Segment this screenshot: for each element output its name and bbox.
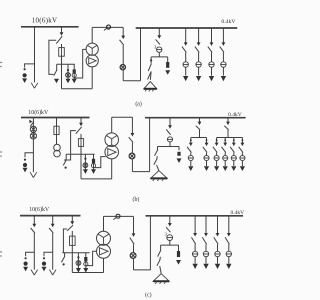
arrester ground arrow (a) [22, 78, 27, 83]
metering tap to transformer wire (c) [86, 251, 97, 265]
feeder group 2 stem with breaker (b) [217, 118, 243, 138]
ground leg switch 2 (c) [157, 259, 160, 265]
0.4kV bus (a) [136, 27, 238, 29]
grounding T rail (c) [161, 244, 179, 246]
bottom link wire (a) [62, 88, 93, 90]
metering drop wire mid (a) [122, 45, 124, 64]
PT tap 2 arrow (a) [66, 79, 71, 84]
PT tap 1 arrow (a) [54, 79, 59, 84]
metering drop switch (b) [129, 137, 133, 142]
svg-text:(c): (c) [145, 291, 152, 298]
grounding T rail (b) [158, 146, 180, 148]
fuse (c) [70, 236, 76, 245]
PT tap 3 winding (c) [84, 262, 88, 266]
incoming line 2 with switch and arrester (c) [42, 216, 57, 275]
10(6)kV bus (a) [21, 26, 79, 28]
grounding branch wire 2 (c) [169, 241, 171, 246]
svg-text:10(6)kV: 10(6)kV [29, 206, 50, 213]
grounding branch meter (c) [167, 235, 173, 241]
svg-text:0.4kV: 0.4kV [228, 112, 242, 118]
metering meter (a) [120, 65, 125, 70]
metering bottom wire (b) [132, 171, 149, 173]
arrester leg arrow (c) [176, 260, 181, 265]
incoming open arrow (b) [30, 172, 33, 177]
transformer branch wire (c) [71, 216, 73, 223]
svg-text:(a): (a) [135, 101, 142, 108]
margin artifact (a) [0, 62, 2, 64]
arrester gap dot (b) [24, 159, 26, 161]
ground leg switch 2 (a) [148, 72, 151, 79]
switch bracket wire (a) [49, 40, 56, 74]
jumper breaker symbol (c) [116, 214, 120, 218]
arrester leg arrow (a) [165, 70, 170, 75]
PT tap 1 dot (c) [63, 263, 65, 265]
0.4kV bus (b) [145, 117, 246, 119]
0.4kV feeder 3 (a): wire, breaker, meter, load arrow [208, 28, 214, 81]
transformer lv riser (c) [103, 258, 105, 272]
grounding branch wire (c) [169, 216, 171, 225]
ground leg wire 2 (c) [159, 257, 162, 260]
fuse (b) [78, 139, 83, 147]
metering drop wire lower (c) [133, 258, 135, 270]
incoming line wire (a) [34, 27, 36, 83]
metering bottom wire (a) [123, 80, 140, 82]
metering drop wire upper (a) [122, 27, 124, 37]
disconnect switch (a) [56, 36, 62, 44]
wire fuse to rail (c) [71, 245, 73, 272]
transformer hv riser (a) [91, 27, 93, 43]
incoming line 1 with switch and arrester (c) [23, 216, 37, 275]
PT tap 3 wire (a) [73, 64, 75, 80]
PT tap 2 dot (b) [84, 158, 86, 160]
10(6)kV bus (b) [21, 117, 90, 119]
ground leg wire 3 (c) [160, 266, 162, 273]
metering drop wire upper (c) [133, 216, 135, 235]
PT tap 2 wire (c) [77, 253, 79, 269]
bus end riser (c) [149, 216, 151, 270]
arrester leg element (c) [177, 251, 180, 257]
ground leg wire 3 (b) [157, 165, 159, 171]
feeder group2 branch 2 (b) [222, 138, 228, 172]
bus end riser (b) [149, 118, 151, 172]
ground leg dot (a) [150, 59, 152, 61]
grounding branch wire (b) [169, 118, 171, 127]
wire switch to fuse (b) [80, 134, 82, 139]
grounding triangle (a) [144, 82, 157, 89]
metering drop wire lower (b) [131, 159, 133, 172]
bus end riser (a) [140, 28, 142, 81]
svg-text:10(6)kV: 10(6)kV [32, 16, 57, 24]
PT tap 1 switch (b) [63, 159, 66, 165]
PT tap 3 winding (b) [91, 164, 95, 168]
transformer T (c) [97, 231, 111, 245]
PT tap 2 dot (a) [67, 69, 69, 71]
10(6)kV bus (c) [20, 215, 81, 217]
0.4kV feeder 2 (a): wire, breaker, meter, load arrow [195, 28, 201, 81]
grounding branch switch (c) [166, 227, 170, 232]
grounding branch wire 2 (b) [169, 142, 171, 147]
PT branch wire 2 (b) [56, 135, 58, 145]
PT tap 3 element (c) [84, 257, 87, 261]
ground leg switch 1 (b) [155, 150, 158, 156]
PT branch wire (b) [56, 118, 58, 127]
ground leg wire 2 (b) [156, 156, 159, 159]
PT tap 2 wire (b) [84, 154, 86, 170]
grounding branch wire 2 (a) [158, 52, 160, 57]
feeder group1 branch 2 (b) [203, 138, 209, 172]
transformer lv riser (a) [91, 67, 93, 89]
bottom link wire (c) [72, 272, 103, 274]
PT tap 3 wire (b) [93, 154, 95, 170]
metering rail (b) [66, 153, 95, 155]
metering bottom wire (c) [134, 269, 151, 271]
voltage transformer circle 2 (b) [54, 150, 61, 157]
transformer T (b) [105, 133, 119, 147]
arrester leg element (b) [177, 152, 180, 156]
metering drop switch (c) [130, 238, 134, 245]
switch bracket wire (c) [63, 229, 67, 253]
PT tap 1 dot (b) [65, 167, 67, 169]
PT tap 1 wire (c) [64, 253, 66, 257]
feeder group2 branch 3 (b) [230, 138, 236, 172]
jumper breaker symbol (a) [107, 25, 111, 29]
PT tap 1 switch (c) [61, 256, 64, 262]
arrester leg wire (c) [178, 245, 180, 251]
arrester body (a) [23, 73, 27, 77]
PT tap 1 wire (a) [56, 64, 58, 70]
arrester leg element (a) [166, 62, 169, 68]
arrester branch wire (b) [25, 153, 33, 157]
metering rail (a) [57, 63, 75, 65]
arrester leg wire (b) [178, 147, 180, 151]
0.4kV feeder 4 (a): wire, breaker, meter, load arrow [220, 28, 226, 81]
grounding triangle (b) [151, 171, 168, 179]
metering tap to transformer wire (a) [74, 49, 86, 78]
incoming CT 1 (b) [30, 126, 36, 132]
PT tap 1 wire (b) [65, 154, 67, 159]
svg-text:0.4kV: 0.4kV [231, 210, 245, 216]
transformer branch switch (b) [76, 127, 82, 134]
wire switch to fuse (a) [61, 44, 63, 48]
grounding branch switch (b) [166, 129, 170, 134]
bottom link wire (b) [81, 178, 112, 180]
0.4kV feeder 3 (c): wire, breaker, meter, load arrow [214, 216, 220, 269]
0.4kV bus (c) [146, 215, 244, 217]
PT tap 3 wire (c) [85, 253, 87, 269]
PT tap 2 winding (b) [83, 163, 88, 168]
grounding T rail (a) [151, 56, 168, 58]
PT tap 2 dot (c) [77, 256, 79, 258]
svg-text:0.4kV: 0.4kV [221, 19, 236, 25]
wire fuse to metering rail (a) [61, 56, 63, 88]
transformer lv riser (b) [111, 159, 113, 179]
arrester body (b) [23, 163, 27, 167]
fuse (a) [59, 48, 65, 57]
arrester gap dot (a) [24, 68, 26, 70]
PT tap 3 arrow (c) [83, 268, 88, 273]
incoming line open arrow (a) [31, 83, 34, 88]
arrester ground arrow (b) [23, 168, 28, 173]
metering rail (c) [62, 252, 89, 254]
transformer T (a) [86, 43, 98, 55]
wire switch to fuse (c) [71, 231, 73, 236]
0.4kV feeder 2 (c): wire, breaker, meter, load arrow [202, 216, 208, 269]
voltage transformer circle 1 (b) [54, 144, 61, 151]
wire fuse to rail (b) [80, 146, 82, 179]
PT tap 2 winding (a) [66, 73, 71, 78]
lv jumper (b) [112, 116, 133, 118]
arrester leg arrow (b) [177, 158, 182, 163]
ground leg wire (a) [150, 57, 152, 64]
metering meter (c) [130, 253, 136, 259]
0.4kV feeder 1 (c): wire, breaker, meter, load arrow [191, 216, 197, 269]
lv jumper (c) [104, 215, 134, 217]
PT tap 2 wire (a) [67, 64, 69, 80]
metering drop switch (a) [120, 40, 124, 45]
transformer hv riser (c) [103, 216, 105, 231]
ground leg wire (b) [157, 147, 159, 150]
PT tap 3 element (a) [73, 69, 76, 73]
arrester branch wire (a) [25, 64, 35, 68]
metering drop wire lower (a) [122, 70, 124, 81]
grounding branch meter (b) [167, 137, 172, 142]
PT tap 3 winding (a) [72, 73, 76, 77]
transformer branch wire (b) [80, 118, 82, 125]
PT tap 2 arrow (c) [76, 268, 81, 273]
ground leg switch 1 (c) [158, 250, 161, 257]
ground leg switch 2 (b) [154, 159, 157, 165]
PT tap 1 switch (a) [54, 70, 57, 76]
PT tap 3 element (b) [92, 159, 95, 163]
metering tap to transformer wire (b) [94, 157, 106, 168]
PT tap 3 arrow (b) [91, 169, 96, 174]
incoming line wire (b) [32, 118, 34, 173]
grounding branch wire (a) [158, 28, 160, 37]
metering drop wire upper (b) [131, 117, 133, 134]
lv jumper (a) [92, 26, 123, 28]
PT fuse (b) [54, 126, 59, 134]
0.4kV feeder 1 (a): wire, breaker, meter, load arrow [182, 28, 188, 81]
margin artifact (b) [0, 151, 2, 153]
ground leg switch 1 (a) [148, 64, 151, 71]
feeder group2 branch 4 (b) [239, 138, 245, 172]
transformer hv riser (b) [111, 117, 113, 133]
svg-text:(b): (b) [133, 196, 140, 203]
feeder group1 branch 1 (b) [187, 138, 193, 172]
wire bus to switch (a) [61, 27, 63, 34]
svg-text:10(6)kV: 10(6)kV [28, 109, 49, 116]
0.4kV feeder 4 (c): wire, breaker, meter, load arrow [225, 216, 231, 269]
metering drop wire mid (b) [131, 142, 133, 153]
grounding triangle (c) [153, 274, 169, 282]
incoming CT 2 (b) [30, 133, 36, 139]
PT tap 2 winding (c) [76, 261, 81, 266]
metering drop wire mid (c) [133, 244, 135, 252]
ground leg wire 2 (a) [149, 71, 152, 80]
ground leg wire (c) [160, 245, 162, 250]
transformer branch switch (c) [67, 225, 73, 231]
metering meter (b) [129, 153, 135, 159]
incoming switch (b) [30, 121, 34, 126]
arrester leg wire (a) [167, 57, 169, 62]
grounding branch meter (a) [157, 47, 162, 52]
grounding branch switch (a) [156, 39, 160, 44]
margin artifact (c) [0, 251, 2, 253]
feeder group 1 stem with breaker (b) [191, 118, 207, 138]
PT tap 2 arrow (b) [83, 169, 88, 174]
switch bracket wire (b) [64, 131, 76, 160]
feeder group2 branch 1 (b) [213, 138, 219, 172]
PT tap 3 arrow (a) [72, 79, 77, 84]
